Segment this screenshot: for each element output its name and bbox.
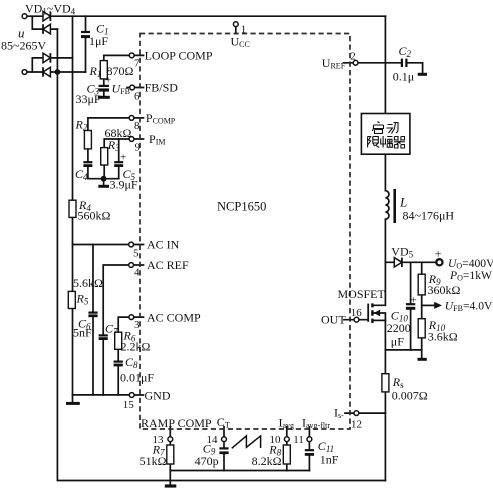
svg-text:85~265V: 85~265V [1, 39, 46, 53]
svg-text:AC COMP: AC COMP [147, 310, 201, 324]
svg-text:7: 7 [134, 58, 140, 70]
svg-text:51kΩ: 51kΩ [140, 454, 167, 468]
svg-text:+: + [411, 294, 417, 306]
svg-text:360kΩ: 360kΩ [428, 283, 461, 297]
svg-text:+: + [105, 75, 111, 87]
svg-text:AC REF: AC REF [147, 258, 189, 272]
svg-text:33μF: 33μF [76, 92, 101, 106]
svg-text:5nF: 5nF [73, 325, 92, 339]
svg-text:8.2kΩ: 8.2kΩ [252, 454, 282, 468]
svg-text:84~176μH: 84~176μH [403, 209, 455, 223]
svg-text:6: 6 [134, 91, 140, 103]
svg-text:2.2kΩ: 2.2kΩ [121, 339, 151, 353]
svg-text:μF: μF [391, 335, 404, 349]
svg-text:470p: 470p [195, 454, 219, 468]
svg-text:+: + [435, 246, 442, 260]
svg-text:RAMP COMP: RAMP COMP [141, 416, 212, 430]
svg-text:3: 3 [134, 319, 140, 331]
svg-text:0.1μ: 0.1μ [393, 70, 414, 84]
svg-text:1nF: 1nF [320, 452, 339, 466]
svg-text:+: + [120, 152, 126, 164]
svg-text:2: 2 [350, 51, 356, 63]
svg-text:1: 1 [241, 24, 247, 36]
svg-text:OUT: OUT [321, 313, 346, 327]
svg-text:MOSFET: MOSFET [338, 287, 386, 301]
svg-text:9: 9 [135, 141, 141, 153]
svg-text:16: 16 [351, 307, 363, 319]
svg-text:1μF: 1μF [89, 34, 108, 48]
svg-text:NCP1650: NCP1650 [217, 200, 266, 214]
svg-text:VD1~VD4: VD1~VD4 [25, 2, 76, 17]
svg-text:5.6kΩ: 5.6kΩ [73, 276, 103, 290]
svg-text:560kΩ: 560kΩ [78, 208, 111, 222]
svg-text:4: 4 [134, 267, 140, 279]
svg-text:LOOP COMP: LOOP COMP [145, 49, 213, 63]
svg-text:0.007Ω: 0.007Ω [392, 389, 428, 403]
svg-text:0.01μF: 0.01μF [120, 371, 154, 385]
svg-text:3.9μF: 3.9μF [110, 178, 138, 192]
svg-text:AC IN: AC IN [147, 238, 180, 252]
svg-text:8: 8 [134, 120, 140, 132]
svg-text:GND: GND [145, 389, 171, 403]
svg-text:UFB=4.0V: UFB=4.0V [445, 300, 493, 314]
svg-text:2200: 2200 [387, 321, 411, 335]
svg-text:L: L [399, 195, 407, 210]
svg-text:3.6kΩ: 3.6kΩ [428, 330, 458, 344]
svg-text:FB/SD: FB/SD [145, 81, 179, 95]
svg-text:PO=1kW: PO=1kW [449, 269, 492, 283]
svg-text:15: 15 [123, 399, 135, 411]
svg-text:12: 12 [351, 418, 362, 430]
svg-text:5: 5 [133, 247, 139, 259]
svg-text:11: 11 [293, 434, 304, 446]
